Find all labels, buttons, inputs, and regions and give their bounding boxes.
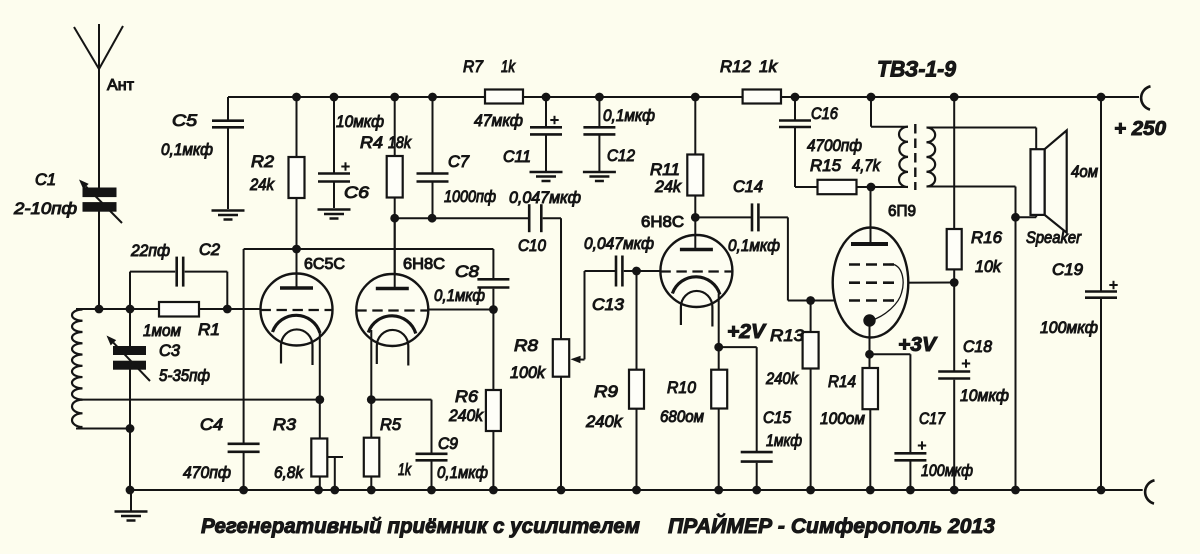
wire antenna to C1 <box>98 68 100 189</box>
svg-text:240k: 240k <box>765 370 799 388</box>
capacitor C7 <box>432 97 434 173</box>
node ground bus at R3 <box>314 486 323 495</box>
capacitor C14 <box>695 216 751 218</box>
wire V2 grid lead <box>428 309 493 311</box>
transformer T1 secondary <box>927 128 936 187</box>
tube V1 6С5С <box>261 274 333 346</box>
svg-text:240k: 240k <box>585 413 623 431</box>
speaker LS1 <box>1045 130 1067 232</box>
svg-text:C11: C11 <box>503 148 531 166</box>
node R9 top junction <box>632 267 641 276</box>
wire tank top line <box>76 308 159 310</box>
node ground bus at C3 <box>126 486 135 495</box>
wire coil tap <box>83 399 320 401</box>
svg-text:100мкф: 100мкф <box>921 462 973 480</box>
svg-text:R5: R5 <box>380 416 402 434</box>
svg-text:240k: 240k <box>448 407 484 425</box>
svg-text:C14: C14 <box>733 178 763 196</box>
capacitor C6 (electrolytic) <box>333 97 335 173</box>
antenna <box>98 24 100 70</box>
svg-text:4ом: 4ом <box>1071 163 1098 181</box>
node V2 grid junction <box>489 305 498 314</box>
resistor R10 <box>718 347 720 370</box>
capacitor C17 (electrolytic) <box>870 353 911 355</box>
node V2 cathode junction <box>367 395 376 404</box>
node C11 top <box>542 93 551 102</box>
svg-text:6С5С: 6С5С <box>304 256 345 273</box>
svg-text:C19: C19 <box>1052 261 1083 279</box>
svg-text:C18: C18 <box>963 338 993 356</box>
node coil bottom junction <box>126 424 135 433</box>
svg-text:C7: C7 <box>448 153 470 171</box>
svg-text:C16: C16 <box>811 105 839 123</box>
svg-text:4700пф: 4700пф <box>807 137 862 155</box>
svg-text:100k: 100k <box>510 364 546 382</box>
svg-text:6Н8С: 6Н8С <box>403 256 445 273</box>
svg-text:0,1мкф: 0,1мкф <box>603 107 655 125</box>
svg-text:24k: 24k <box>654 178 682 196</box>
svg-text:C13: C13 <box>592 296 625 314</box>
resistor R13 <box>810 301 812 333</box>
ground at C6 <box>318 208 351 211</box>
capacitor C16 <box>794 97 796 120</box>
svg-text:R8: R8 <box>514 337 539 355</box>
resistor R9 <box>636 271 638 370</box>
resistor R3 (with tap) <box>319 400 321 439</box>
svg-text:10мкф: 10мкф <box>336 113 384 131</box>
node C12 top <box>595 93 604 102</box>
svg-text:R14: R14 <box>828 373 856 391</box>
terminal ground bus end <box>1145 480 1154 503</box>
resistor R7 <box>485 90 523 104</box>
wire V1 anode node <box>244 248 494 250</box>
svg-text:1k: 1k <box>398 461 412 479</box>
svg-text:R9: R9 <box>594 383 618 401</box>
svg-text:+2V: +2V <box>727 321 767 343</box>
svg-text:C12: C12 <box>607 147 635 165</box>
node C16 top <box>791 93 800 102</box>
svg-text:R2: R2 <box>251 153 274 171</box>
svg-text:0,047мкф: 0,047мкф <box>509 189 581 207</box>
svg-text:R1: R1 <box>198 321 220 339</box>
node V4 grid junction <box>806 296 815 305</box>
node ground bus at R6 <box>489 486 498 495</box>
resistor R15 <box>818 180 857 194</box>
svg-text:R16: R16 <box>971 229 1003 247</box>
svg-text:R7: R7 <box>463 58 484 76</box>
resistor R6 <box>492 310 494 391</box>
wire V4 screen to R16 <box>894 282 954 284</box>
svg-text:C1: C1 <box>35 171 56 189</box>
capacitor C1 (variable) <box>83 188 116 197</box>
svg-text:Speaker: Speaker <box>1026 229 1082 247</box>
wire V2 anode node <box>395 217 529 219</box>
node R11 top <box>691 93 700 102</box>
svg-text:6П9: 6П9 <box>888 203 916 220</box>
node V2 anode junction <box>390 214 399 223</box>
svg-text:C17: C17 <box>919 410 946 428</box>
svg-text:1k: 1k <box>759 58 778 76</box>
node V3 anode junction <box>691 213 700 222</box>
node ground bus at R8 <box>557 486 566 495</box>
resistor R14 <box>869 354 871 368</box>
tube V4 6П9 (pentode) <box>833 228 909 338</box>
ground at C11 <box>530 171 563 174</box>
node C7 bottom junction <box>428 214 437 223</box>
capacitor C19 (electrolytic) <box>1100 97 1102 291</box>
resistor R5 <box>370 400 372 438</box>
svg-text:1мкф: 1мкф <box>766 432 802 450</box>
transformer T1 primary <box>870 97 872 127</box>
wire V3 cathode lead <box>718 294 720 347</box>
node ground bus at C9 <box>427 486 436 495</box>
svg-text:C3: C3 <box>159 342 181 360</box>
resistor R12 <box>743 90 781 104</box>
capacitor C9 <box>371 399 431 401</box>
svg-text:6,8k: 6,8k <box>274 464 304 482</box>
wire V4 cathode lead <box>869 321 871 355</box>
svg-text:100мкф: 100мкф <box>1040 319 1098 337</box>
svg-text:1мом: 1мом <box>143 322 181 340</box>
node V1 cathode junction <box>315 395 324 404</box>
node ground bus at R13 <box>806 486 815 495</box>
transformer T1 core <box>914 124 916 190</box>
node R16 bottom junction <box>950 278 959 287</box>
svg-text:R4: R4 <box>360 134 383 152</box>
svg-text:24k: 24k <box>249 176 275 194</box>
resistor R1 <box>159 302 199 317</box>
ground main symbol <box>130 490 132 511</box>
node ground bus at R5 <box>367 486 376 495</box>
node V1 anode junction <box>292 245 301 254</box>
node ground bus at C4 <box>239 486 248 495</box>
node grid-1 junction <box>223 305 232 314</box>
svg-text:C9: C9 <box>438 435 458 453</box>
node R16 top <box>950 93 959 102</box>
tube V2 6Н8С <box>356 274 428 346</box>
resistor R11 <box>694 97 696 155</box>
svg-text:R10: R10 <box>667 379 697 397</box>
svg-text:C10: C10 <box>518 237 547 255</box>
svg-text:6Н8С: 6Н8С <box>641 214 684 231</box>
wire coil bottom <box>76 428 130 430</box>
svg-text:Регенеративный приёмник с усил: Регенеративный приёмник с усилителем <box>201 515 640 538</box>
capacitor C2 <box>129 272 131 309</box>
terminal +250 <box>1141 86 1150 109</box>
capacitor C13 <box>615 256 618 287</box>
wire C1 to tank <box>98 210 100 309</box>
capacitor C12 <box>598 97 600 126</box>
resistor R4 <box>394 97 396 156</box>
svg-text:4,7k: 4,7k <box>852 157 881 175</box>
capacitor C11 (electrolytic) <box>545 97 547 126</box>
wire top supply rail <box>228 96 485 98</box>
wire ground bus <box>130 489 1143 491</box>
node +3V junction <box>865 350 874 359</box>
svg-text:10k: 10k <box>975 258 1002 276</box>
capacitor C18 (electrolytic) <box>953 283 955 371</box>
node R4 top <box>390 93 399 102</box>
svg-text:470пф: 470пф <box>183 464 231 482</box>
capacitor C8 <box>492 249 494 278</box>
resistor R16 <box>953 97 955 229</box>
svg-text:18k: 18k <box>388 134 412 152</box>
svg-text:+ 250: + 250 <box>1114 118 1166 140</box>
wire C3 to ground bus <box>129 429 131 491</box>
node T1 primary top <box>867 93 876 102</box>
node speaker return junction <box>1011 213 1020 222</box>
svg-text:1k: 1k <box>501 58 516 76</box>
svg-text:47мкф: 47мкф <box>474 112 523 130</box>
node C3 top junction <box>126 305 135 314</box>
svg-text:R13: R13 <box>770 327 805 345</box>
svg-text:C8: C8 <box>455 263 480 281</box>
svg-text:680ом: 680ом <box>660 408 704 426</box>
svg-text:1000пф: 1000пф <box>444 188 496 206</box>
node C19 top <box>1097 93 1106 102</box>
ground at C12 <box>583 171 616 174</box>
node ground bus at C17 <box>906 486 915 495</box>
node ground bus at C19 <box>1097 486 1106 495</box>
capacitor C5 <box>227 97 229 120</box>
svg-text:C4: C4 <box>200 416 223 434</box>
node ground bus at R14 <box>866 486 875 495</box>
ground at C5 <box>212 209 245 212</box>
wire speaker return to ground <box>1015 217 1017 490</box>
node ground bus at C15 <box>752 486 761 495</box>
node V4 anode junction <box>867 183 876 192</box>
capacitor C3 (variable) <box>129 309 131 347</box>
svg-text:0,1мкф: 0,1мкф <box>161 141 213 159</box>
svg-text:2-10пф: 2-10пф <box>13 200 77 218</box>
wire +2V node <box>719 346 757 348</box>
node ground bus at speaker return <box>1011 486 1020 495</box>
svg-text:100ом: 100ом <box>820 410 865 428</box>
svg-text:0,1мкф: 0,1мкф <box>728 237 780 255</box>
node R2 top <box>292 93 301 102</box>
svg-text:Ант: Ант <box>107 77 135 94</box>
svg-text:R6: R6 <box>455 388 479 406</box>
node ground bus at R9 <box>632 486 641 495</box>
svg-text:5-35пф: 5-35пф <box>159 367 210 385</box>
svg-text:0,1мкф: 0,1мкф <box>434 287 485 305</box>
svg-text:C2: C2 <box>199 241 220 259</box>
svg-text:0,1мкф: 0,1мкф <box>437 464 488 482</box>
svg-text:ТВЗ-1-9: ТВЗ-1-9 <box>877 57 956 82</box>
node ground bus at R10 <box>714 486 723 495</box>
svg-text:C5: C5 <box>172 112 198 130</box>
node C6 top <box>330 93 339 102</box>
svg-text:R3: R3 <box>273 416 297 434</box>
svg-text:10мкф: 10мкф <box>960 387 1009 405</box>
wire V2 anode lead <box>394 218 396 286</box>
svg-text:C15: C15 <box>763 409 792 427</box>
tube V3 6Н8С <box>660 235 732 307</box>
svg-text:R12: R12 <box>720 58 751 76</box>
resistor R2 <box>296 97 298 157</box>
node ground bus at R3 tap <box>330 486 339 495</box>
node V3 cathode junction <box>714 343 723 352</box>
capacitor C15 <box>741 451 773 454</box>
svg-text:R11: R11 <box>650 161 680 179</box>
resistor R8 (potentiometer) <box>553 339 569 377</box>
svg-text:+3V: +3V <box>898 334 938 356</box>
node C7 top <box>428 93 437 102</box>
inductor L1 coil <box>72 310 83 400</box>
svg-text:22пф: 22пф <box>130 242 170 260</box>
svg-text:C6: C6 <box>344 184 370 202</box>
svg-text:R15: R15 <box>810 157 842 175</box>
wire V2 cathode lead <box>370 330 372 400</box>
wire V1 cathode lead <box>319 332 321 400</box>
capacitor C4 <box>243 249 245 443</box>
svg-text:0,047мкф: 0,047мкф <box>584 235 654 253</box>
capacitor C10 <box>528 204 531 232</box>
node antenna junction <box>95 305 104 314</box>
node ground bus at C18 <box>950 486 959 495</box>
svg-text:ПРАЙМЕР - Симферополь 2013: ПРАЙМЕР - Симферополь 2013 <box>668 514 995 538</box>
